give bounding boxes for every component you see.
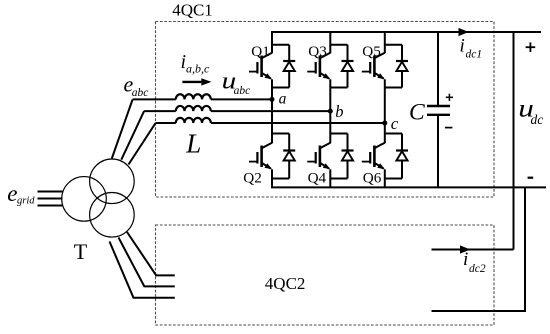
wire transformer to phase a xyxy=(112,99,133,158)
label 4QC1 xyxy=(172,1,213,20)
svg-text:Q1: Q1 xyxy=(251,43,270,60)
label e_abc xyxy=(124,72,149,99)
capacitor C plates xyxy=(427,106,450,115)
label 4QC2 xyxy=(265,274,306,293)
label u_dc xyxy=(518,95,543,127)
wire positive bus drop to 4QC2 xyxy=(513,32,515,250)
label Q5 xyxy=(362,43,381,60)
svg-text:c: c xyxy=(391,114,399,133)
svg-text:4QC1: 4QC1 xyxy=(172,1,213,20)
wire positive DC rail xyxy=(271,31,541,33)
freewheel diode of Q6 xyxy=(385,134,408,179)
svg-text:b: b xyxy=(335,102,343,121)
wire i_dc2 feed xyxy=(432,249,514,251)
transistor Q4 IGBT lower leg 2 xyxy=(307,111,330,187)
svg-text:Q5: Q5 xyxy=(362,43,381,60)
label node c xyxy=(391,114,399,133)
label node b xyxy=(335,102,343,121)
svg-text:abc: abc xyxy=(132,87,149,99)
current arrow i_dc1 xyxy=(459,28,469,36)
label Q2 xyxy=(243,170,262,187)
wire e_grid phase 1 xyxy=(38,191,63,193)
label C xyxy=(409,99,425,125)
capacitor plus polarity mark xyxy=(446,94,453,101)
inductor L phase c xyxy=(176,118,211,123)
wire phase a left segment xyxy=(133,98,176,100)
freewheel diode of Q5 xyxy=(385,45,408,88)
svg-text:C: C xyxy=(409,99,425,125)
wire negative bus drop to 4QC2 xyxy=(524,187,526,311)
label Q3 xyxy=(308,43,327,60)
capacitor minus polarity mark xyxy=(445,127,453,129)
label u_abc xyxy=(222,67,251,97)
svg-text:i: i xyxy=(460,36,465,57)
node c junction dot xyxy=(382,121,387,126)
wire transformer to phase c xyxy=(129,123,156,165)
label i_dc1 xyxy=(460,36,483,61)
svg-text:Q3: Q3 xyxy=(308,43,327,60)
label L xyxy=(185,129,201,159)
wire phase b left segment xyxy=(144,110,176,112)
transistor Q1 IGBT upper leg 1 xyxy=(249,32,272,99)
label T xyxy=(74,239,88,264)
inductor L phase b xyxy=(176,106,211,111)
freewheel diode of Q2 xyxy=(272,134,295,179)
wire phase c to node c xyxy=(211,122,385,124)
transistor Q2 IGBT lower leg 1 xyxy=(249,99,272,187)
svg-text:Q4: Q4 xyxy=(308,170,327,187)
label Q1 xyxy=(251,43,270,60)
freewheel diode of Q1 xyxy=(272,45,295,88)
wire capacitor bottom xyxy=(437,115,439,188)
freewheel diode of Q4 xyxy=(330,134,353,179)
svg-text:i: i xyxy=(463,249,468,270)
svg-text:Q2: Q2 xyxy=(243,170,262,187)
node a junction dot xyxy=(270,97,275,102)
inductor L phase a xyxy=(176,94,211,99)
wire phase c left segment xyxy=(156,122,176,124)
label i_abc xyxy=(181,51,211,75)
svg-text:Q6: Q6 xyxy=(363,170,382,187)
wire transformer to phase b xyxy=(121,111,144,160)
node b junction dot xyxy=(328,109,333,114)
wire e_grid phase 3 xyxy=(38,205,63,207)
wire capacitor top xyxy=(437,32,439,106)
transistor Q5 IGBT upper leg 3 xyxy=(362,32,385,123)
svg-text:dc: dc xyxy=(531,112,544,127)
converter block 4QC2 dashed boundary box xyxy=(156,225,495,325)
wire transformer to 4QC2 phase 3 xyxy=(110,242,175,298)
svg-text:dc1: dc1 xyxy=(466,49,483,61)
label minus terminal xyxy=(528,177,534,179)
svg-text:a: a xyxy=(279,91,287,108)
transistor Q6 IGBT lower leg 3 xyxy=(362,123,385,187)
wire phase a to node a xyxy=(211,98,272,100)
freewheel diode of Q3 xyxy=(330,45,353,88)
label e_grid xyxy=(7,181,35,207)
wire phase b to node b xyxy=(211,110,330,112)
transistor Q3 IGBT upper leg 2 xyxy=(307,32,330,111)
label node a xyxy=(279,91,287,108)
svg-text:grid: grid xyxy=(17,196,35,207)
wire negative DC rail xyxy=(271,186,546,188)
svg-text:abc: abc xyxy=(234,85,251,97)
wire transformer to 4QC2 phase 1 xyxy=(127,232,175,275)
label Q4 xyxy=(308,170,327,187)
label Q6 xyxy=(363,170,382,187)
wire transformer to 4QC2 phase 2 xyxy=(119,238,175,287)
transformer T winding circle bottom xyxy=(90,193,135,238)
label plus terminal xyxy=(526,42,536,52)
wire e_grid phase 2 xyxy=(38,198,63,200)
wire 4QC2 negative return xyxy=(432,310,527,312)
label i_dc2 xyxy=(463,249,486,275)
current arrow i_dc2 xyxy=(460,245,470,253)
svg-text:e: e xyxy=(7,181,17,206)
svg-text:L: L xyxy=(185,129,201,159)
svg-text:T: T xyxy=(74,239,88,264)
current arrow i_abc xyxy=(182,78,211,85)
converter block 4QC1 dashed boundary box xyxy=(156,22,495,198)
transformer T winding circle top xyxy=(90,159,135,204)
transformer T winding circle left xyxy=(62,177,107,222)
svg-text:4QC2: 4QC2 xyxy=(265,274,306,293)
svg-text:dc2: dc2 xyxy=(469,263,486,275)
svg-text:a,b,c: a,b,c xyxy=(186,61,210,75)
